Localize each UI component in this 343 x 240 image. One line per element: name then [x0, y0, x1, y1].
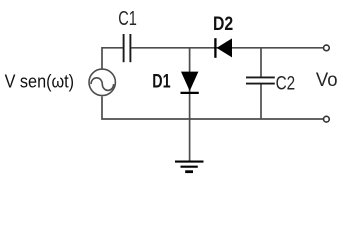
svg-text:Vo: Vo — [316, 69, 338, 91]
wire: top rail left segment from source corner to C1 left plate — [102, 48, 123, 69]
output terminal top (open circle) — [324, 45, 330, 51]
wire: C2 branch upper segment — [260, 48, 262, 77]
output terminal bottom (open circle) — [324, 116, 330, 122]
svg-text:V sen(ωt): V sen(ωt) — [5, 72, 75, 92]
wire: top rail from C1 right plate to top output terminal — [131, 47, 323, 49]
diode D1 cathode bar — [181, 92, 199, 94]
svg-text:C2: C2 — [276, 74, 296, 95]
AC source V sen(wt): circle — [89, 69, 115, 95]
svg-text:D2: D2 — [213, 14, 233, 35]
wire: source bottom lead and bottom rail to bottom output terminal — [102, 96, 323, 119]
ground symbol bars — [175, 161, 204, 163]
svg-text:C1: C1 — [118, 8, 137, 30]
diode D2 triangle — [217, 38, 232, 57]
wire: D1 branch vertical from top rail through bottom rail to ground — [189, 48, 191, 161]
AC source sine wave — [91, 78, 114, 91]
capacitor C1 plates — [123, 34, 125, 62]
diode D1 (vertical, pointing down) triangle — [181, 72, 198, 91]
wire: C2 branch lower segment — [260, 84, 262, 119]
svg-text:D1: D1 — [152, 72, 171, 93]
capacitor C2 plates (horizontal) — [246, 76, 275, 78]
diode D2 (horizontal, pointing left) cathode bar — [214, 38, 216, 58]
